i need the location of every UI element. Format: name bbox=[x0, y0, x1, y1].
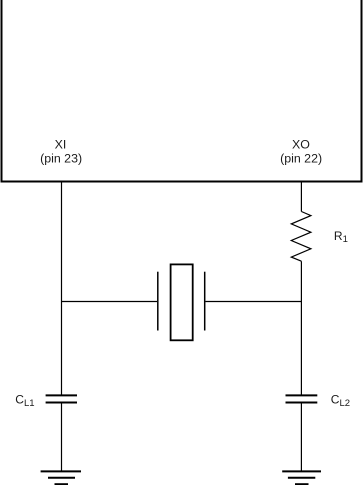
wire crystal left horizontal bbox=[62, 301, 158, 303]
crystal left plate bbox=[157, 272, 159, 331]
capacitor CL1 bottom plate bbox=[46, 402, 77, 404]
capacitor CL2 top plate bbox=[286, 394, 318, 396]
IC block (open-top rectangle, XI/XO device) bbox=[2, 0, 362, 182]
svg-text:CL2: CL2 bbox=[331, 393, 350, 409]
svg-text:R1: R1 bbox=[334, 229, 348, 245]
crystal right plate bbox=[204, 272, 206, 331]
svg-text:(pin 23): (pin 23) bbox=[40, 151, 82, 165]
ground (right) bbox=[282, 471, 321, 484]
pin label XO (pin 22) bbox=[280, 138, 322, 166]
wire resistor R1 down to capacitor CL2 bbox=[300, 261, 302, 395]
crystal body bbox=[171, 264, 193, 340]
capacitor CL2 bottom plate bbox=[286, 402, 318, 404]
resistor R1 zigzag bbox=[291, 212, 311, 262]
wire crystal right horizontal bbox=[206, 301, 302, 303]
svg-text:XI: XI bbox=[55, 138, 67, 152]
wire XO pin down to resistor R1 bbox=[300, 182, 302, 212]
wire XI pin down to capacitor CL1 bbox=[61, 182, 63, 395]
svg-text:CL1: CL1 bbox=[15, 392, 34, 408]
capacitor CL1 top plate bbox=[46, 394, 77, 396]
wire CL1 down to ground bbox=[61, 403, 63, 471]
pin label XI (pin 23) bbox=[40, 138, 82, 166]
svg-text:XO: XO bbox=[292, 138, 310, 152]
ground (left) bbox=[41, 471, 81, 484]
wire CL2 down to ground bbox=[300, 403, 302, 471]
svg-text:(pin 22): (pin 22) bbox=[280, 151, 322, 165]
